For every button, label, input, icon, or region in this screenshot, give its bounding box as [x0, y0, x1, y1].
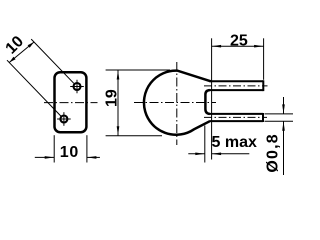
bottom prong (lead) — [204, 113, 267, 122]
body horizontal centerline — [134, 102, 216, 104]
dimension 25: dimension line — [212, 45, 264, 47]
clamp notch between prongs — [205, 90, 209, 114]
diagonal dim arrow lower — [9, 57, 15, 63]
svg-text:25: 25 — [230, 32, 248, 49]
dimension 5 max: dimension line left with arrow — [188, 153, 205, 155]
dimension 25: extension lines — [211, 38, 213, 159]
diagonal dim arrow upper — [28, 42, 34, 48]
hole H2 (bottom) — [57, 112, 71, 126]
diagonal dimension 10: extension line through top hole — [31, 39, 74, 83]
dimension d0.8: extension lines from bottom prong — [265, 113, 294, 115]
bottom dimension 10: dimension line right part with arrow — [87, 156, 100, 158]
diagonal dimension 10: extension line through bottom hole — [7, 60, 61, 116]
svg-text:5 max: 5 max — [212, 134, 257, 151]
hole H1 (top) — [70, 80, 84, 94]
bottom dimension 10: extension lines — [53, 135, 55, 162]
dimension 19: extension lines — [106, 69, 170, 71]
dimension 5 max: left extension line — [204, 126, 206, 163]
top prong (lead) — [204, 80, 268, 91]
diagonal dimension 10: dimension line — [9, 42, 34, 63]
dimension 5 max: dimension line right with arrow — [212, 153, 250, 155]
bottom dimension 10: dimension line left part with arrow — [35, 156, 54, 158]
right view: clamp body outline — [144, 71, 211, 135]
svg-text:Ø0,8: Ø0,8 — [264, 133, 281, 173]
svg-text:19: 19 — [103, 89, 120, 107]
plate horizontal centerline — [44, 102, 98, 104]
dimension 19: dimension line — [117, 70, 119, 136]
dimension d0.8: dimension line with arrows — [283, 97, 285, 114]
svg-text:10: 10 — [60, 144, 79, 161]
body vertical centerline — [176, 62, 178, 145]
left view: mounting plate outline — [55, 72, 87, 132]
